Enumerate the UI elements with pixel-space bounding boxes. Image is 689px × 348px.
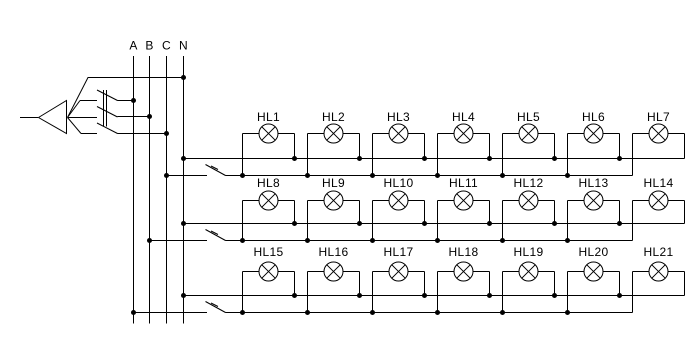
row 2 phase feed wire from bus <box>147 238 207 243</box>
svg-text:HL18: HL18 <box>449 245 479 259</box>
lamp HL2 with connecting wires <box>305 110 362 178</box>
wire supply to N with junction <box>68 75 187 118</box>
svg-text:HL20: HL20 <box>579 245 609 259</box>
lamp HL19 with connecting wires <box>500 245 557 315</box>
bus N vertical wire <box>183 56 185 324</box>
row 2 switched phase wire <box>226 240 633 242</box>
row 1 switched phase wire <box>226 175 633 177</box>
switch QS mechanical linkage bars <box>104 90 107 127</box>
switch QS pole C (wire, blade, junction on C) <box>68 118 170 137</box>
lamp HL15 with connecting wires <box>240 245 297 315</box>
lamp HL17 with connecting wires <box>370 245 427 315</box>
lamp HL8 with connecting wires <box>240 176 297 243</box>
svg-text:HL19: HL19 <box>514 245 544 259</box>
lamp HL20 with connecting wires <box>565 245 622 315</box>
svg-text:HL2: HL2 <box>322 110 345 124</box>
bus A vertical wire <box>133 56 135 324</box>
svg-text:HL12: HL12 <box>514 176 544 190</box>
lamp HL4 with connecting wires <box>435 110 492 178</box>
row 3 phase feed wire from bus <box>131 310 207 315</box>
svg-text:N: N <box>179 39 188 53</box>
svg-text:HL1: HL1 <box>257 110 280 124</box>
svg-text:A: A <box>129 39 137 53</box>
lamp HL1 with connecting wires <box>240 110 297 178</box>
bus B vertical wire <box>149 56 151 324</box>
switch SA1 blade <box>206 165 226 176</box>
switch QS pole A (wire, blade, junction on A) <box>68 90 137 118</box>
svg-text:HL14: HL14 <box>644 176 674 190</box>
switch SA2 blade <box>206 230 226 241</box>
svg-text:HL10: HL10 <box>384 176 414 190</box>
row 1 neutral feed wire from N <box>181 156 685 161</box>
lamp HL3 with connecting wires <box>370 110 427 178</box>
svg-text:HL9: HL9 <box>322 176 345 190</box>
supply cable symbol W1 <box>20 101 67 134</box>
switch SA3 blade <box>206 302 226 313</box>
lamp HL7 with connecting wires <box>633 110 685 176</box>
svg-text:HL15: HL15 <box>254 245 284 259</box>
lamp HL16 with connecting wires <box>305 245 362 315</box>
lamp HL5 with connecting wires <box>500 110 557 178</box>
svg-text:HL21: HL21 <box>644 245 674 259</box>
svg-text:HL8: HL8 <box>257 176 280 190</box>
svg-text:HL7: HL7 <box>647 110 670 124</box>
svg-text:C: C <box>162 39 171 53</box>
svg-text:HL11: HL11 <box>449 176 478 190</box>
svg-text:HL3: HL3 <box>387 110 410 124</box>
lamp HL18 with connecting wires <box>435 245 492 315</box>
svg-text:HL17: HL17 <box>384 245 414 259</box>
svg-text:B: B <box>145 39 153 53</box>
lamp HL10 with connecting wires <box>370 176 427 243</box>
row 3 neutral feed wire from N <box>181 293 685 298</box>
row 1 phase feed wire from bus <box>164 173 207 178</box>
lamp HL13 with connecting wires <box>565 176 622 243</box>
switch QS pole B (wire, blade, junction on B) <box>68 107 153 120</box>
lamp HL14 with connecting wires <box>633 176 685 241</box>
svg-text:HL6: HL6 <box>582 110 605 124</box>
lamp HL11 with connecting wires <box>435 176 492 243</box>
svg-text:HL13: HL13 <box>579 176 609 190</box>
lamp HL12 with connecting wires <box>500 176 557 243</box>
bus C vertical wire <box>166 56 168 324</box>
svg-text:HL5: HL5 <box>517 110 540 124</box>
row 3 switched phase wire <box>226 312 633 314</box>
svg-text:HL4: HL4 <box>452 110 475 124</box>
lamp HL21 with connecting wires <box>633 245 685 313</box>
lamp HL6 with connecting wires <box>565 110 622 178</box>
row 2 neutral feed wire from N <box>181 221 685 226</box>
lamp HL9 with connecting wires <box>305 176 362 243</box>
svg-text:HL16: HL16 <box>319 245 349 259</box>
